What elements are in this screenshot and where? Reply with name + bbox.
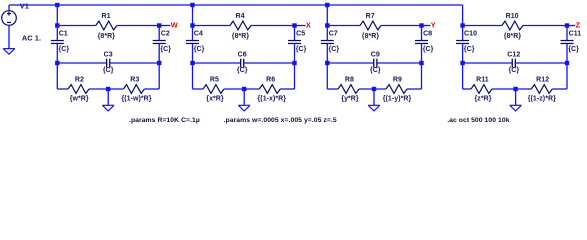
wire bottom middle bbox=[359, 88, 386, 90]
svg-text:{8*R}: {8*R} bbox=[504, 33, 522, 40]
svg-text:{8*R}: {8*R} bbox=[232, 33, 250, 40]
wire left rail down bbox=[462, 44, 464, 89]
svg-text:R4: R4 bbox=[236, 13, 245, 20]
svg-text:{C}: {C} bbox=[296, 46, 307, 53]
resistor R9 bbox=[386, 85, 407, 94]
wire middle rail right bbox=[516, 62, 567, 64]
wire middle rail left bbox=[463, 62, 512, 64]
svg-text:R9: R9 bbox=[393, 77, 402, 84]
wire bottom left bbox=[57, 88, 68, 90]
junction bbox=[292, 23, 296, 27]
svg-text:{y*R}: {y*R} bbox=[341, 96, 359, 103]
svg-text:{x*R}: {x*R} bbox=[206, 96, 224, 103]
svg-text:C11: C11 bbox=[569, 31, 582, 38]
svg-text:R11: R11 bbox=[476, 77, 489, 84]
resistor R5 bbox=[203, 85, 224, 94]
svg-text:{w*R}: {w*R} bbox=[70, 96, 89, 103]
svg-text:{C}: {C} bbox=[194, 46, 205, 53]
svg-text:R6: R6 bbox=[266, 77, 275, 84]
capacitor C1 bbox=[51, 40, 64, 44]
wire bbox=[158, 26, 160, 41]
resistor R8 bbox=[338, 85, 359, 94]
svg-text:{C}: {C} bbox=[329, 46, 340, 53]
capacitor C8 bbox=[415, 40, 428, 44]
wire middle rail right bbox=[110, 62, 159, 64]
svg-text:{(1-y)*R}: {(1-y)*R} bbox=[383, 96, 412, 103]
wire bbox=[421, 26, 423, 41]
wire left rail down bbox=[56, 44, 58, 89]
wire to ground bbox=[243, 89, 245, 105]
wire middle rail right bbox=[244, 62, 294, 64]
wire bottom right bbox=[144, 88, 159, 90]
wire bbox=[57, 25, 96, 27]
junction bbox=[190, 23, 194, 27]
wire middle rail right bbox=[377, 62, 421, 64]
svg-text:.params R=10K C=.1µ: .params R=10K C=.1µ bbox=[129, 117, 200, 124]
svg-text:C6: C6 bbox=[238, 52, 247, 59]
wire bbox=[294, 26, 296, 41]
svg-text:C10: C10 bbox=[464, 31, 477, 38]
svg-text:{C}: {C} bbox=[423, 46, 434, 53]
svg-text:C4: C4 bbox=[194, 31, 203, 38]
resistor R6 bbox=[259, 85, 280, 94]
svg-text:{C}: {C} bbox=[464, 46, 475, 53]
wire top rail drop to section 4 bbox=[462, 5, 464, 26]
wire left rail down bbox=[192, 44, 194, 89]
wire bbox=[117, 25, 159, 27]
svg-text:.params w=.0005 x=.005 y=.05 z: .params w=.0005 x=.005 y=.05 z=.5 bbox=[224, 117, 337, 124]
capacitor C5 bbox=[288, 40, 301, 44]
wire stub to net X bbox=[295, 25, 306, 27]
junction bbox=[157, 23, 161, 27]
svg-text:R1: R1 bbox=[101, 13, 110, 20]
capacitor C12 bbox=[512, 59, 516, 68]
wire top rail bbox=[9, 4, 463, 6]
svg-text:{C}: {C} bbox=[237, 67, 248, 74]
junction bbox=[460, 61, 464, 65]
wire V1 top bbox=[8, 5, 10, 11]
wire bottom left bbox=[327, 88, 338, 90]
capacitor C10 bbox=[456, 40, 469, 44]
junction bbox=[55, 3, 59, 7]
svg-text:{(1-x)*R}: {(1-x)*R} bbox=[258, 96, 287, 103]
wire bottom right bbox=[552, 88, 567, 90]
wire bottom middle bbox=[492, 88, 531, 90]
svg-text:{C}: {C} bbox=[160, 46, 171, 53]
resistor R7 bbox=[360, 21, 381, 30]
svg-text:C8: C8 bbox=[423, 31, 432, 38]
junction bbox=[325, 23, 329, 27]
wire right rail down bbox=[421, 44, 423, 89]
resistor R2 bbox=[68, 85, 89, 94]
wire left rail down bbox=[326, 44, 328, 89]
wire bbox=[566, 26, 568, 41]
junction bbox=[157, 61, 161, 65]
wire bbox=[56, 26, 58, 41]
svg-text:{8*R}: {8*R} bbox=[362, 33, 380, 40]
svg-text:V1: V1 bbox=[20, 2, 29, 11]
wire bbox=[381, 25, 422, 27]
svg-text:{C}: {C} bbox=[508, 67, 519, 74]
svg-text:Z: Z bbox=[576, 21, 581, 30]
junction bbox=[565, 61, 569, 65]
junction bbox=[460, 23, 464, 27]
wire to ground bbox=[107, 89, 109, 105]
svg-text:W: W bbox=[171, 21, 178, 30]
wire bbox=[463, 25, 502, 27]
wire bbox=[327, 25, 360, 27]
svg-text:Y: Y bbox=[431, 21, 436, 30]
resistor R1 bbox=[96, 21, 117, 30]
svg-text:{z*R}: {z*R} bbox=[474, 96, 491, 103]
svg-text:.ac oct 500 100 10k: .ac oct 500 100 10k bbox=[447, 117, 510, 124]
svg-text:AC 1.: AC 1. bbox=[22, 33, 41, 42]
wire right rail down bbox=[158, 44, 160, 89]
junction (ground tap) bbox=[513, 87, 517, 91]
wire middle rail left bbox=[327, 62, 373, 64]
wire bottom left bbox=[193, 88, 204, 90]
svg-text:{C}: {C} bbox=[59, 46, 70, 53]
wire bbox=[326, 26, 328, 41]
svg-text:R12: R12 bbox=[536, 77, 549, 84]
junction (ground tap) bbox=[372, 87, 376, 91]
wire V1 bottom bbox=[8, 25, 10, 48]
wire bbox=[193, 25, 231, 27]
svg-text:R10: R10 bbox=[506, 13, 519, 20]
ground bbox=[368, 105, 380, 111]
svg-text:C12: C12 bbox=[507, 52, 520, 59]
wire to ground bbox=[373, 89, 375, 105]
wire bottom middle bbox=[224, 88, 259, 90]
junction (ground tap) bbox=[242, 87, 246, 91]
wire tap down to section input node bbox=[56, 5, 58, 26]
junction bbox=[565, 23, 569, 27]
svg-text:R7: R7 bbox=[366, 13, 375, 20]
capacitor C9 bbox=[373, 59, 377, 68]
ground bbox=[238, 105, 250, 111]
wire stub to net Z bbox=[567, 25, 575, 27]
capacitor C11 bbox=[561, 40, 574, 44]
wire right rail down bbox=[294, 44, 296, 89]
svg-text:{(1-w)*R}: {(1-w)*R} bbox=[121, 96, 151, 103]
wire bottom right bbox=[280, 88, 294, 90]
wire to ground bbox=[515, 89, 517, 105]
resistor R12 bbox=[531, 85, 552, 94]
svg-text:X: X bbox=[306, 21, 311, 30]
wire bottom right bbox=[407, 88, 422, 90]
wire middle rail left bbox=[57, 62, 106, 64]
svg-text:C1: C1 bbox=[59, 31, 68, 38]
svg-text:C9: C9 bbox=[371, 52, 380, 59]
wire tap down to section input node bbox=[326, 5, 328, 26]
junction bbox=[419, 61, 423, 65]
ground bbox=[510, 105, 522, 111]
svg-text:R2: R2 bbox=[75, 77, 84, 84]
wire middle rail left bbox=[193, 62, 241, 64]
wire bbox=[462, 26, 464, 41]
junction bbox=[419, 23, 423, 27]
svg-text:C7: C7 bbox=[329, 31, 338, 38]
junction bbox=[55, 23, 59, 27]
svg-text:C3: C3 bbox=[104, 52, 113, 59]
wire stub to net W bbox=[159, 25, 170, 27]
junction bbox=[325, 61, 329, 65]
capacitor C4 bbox=[186, 40, 199, 44]
ground bbox=[102, 105, 114, 111]
svg-text:{C}: {C} bbox=[370, 67, 381, 74]
svg-text:R8: R8 bbox=[345, 77, 354, 84]
junction bbox=[325, 3, 329, 7]
wire bbox=[251, 25, 295, 27]
resistor R11 bbox=[471, 85, 492, 94]
wire bottom left bbox=[463, 88, 471, 90]
capacitor C6 bbox=[240, 59, 244, 68]
svg-text:{C}: {C} bbox=[568, 46, 579, 53]
svg-text:{(1-z)*R}: {(1-z)*R} bbox=[528, 96, 556, 103]
resistor R10 bbox=[502, 21, 523, 30]
svg-text:{8*R}: {8*R} bbox=[98, 33, 116, 40]
wire bottom middle bbox=[89, 88, 123, 90]
capacitor C3 bbox=[106, 59, 110, 68]
svg-text:C5: C5 bbox=[296, 31, 305, 38]
ground (V1) bbox=[3, 49, 15, 55]
capacitor C7 bbox=[321, 40, 334, 44]
junction bbox=[55, 61, 59, 65]
junction (ground tap) bbox=[106, 87, 110, 91]
svg-text:R3: R3 bbox=[130, 77, 139, 84]
voltage source V1 bbox=[2, 11, 17, 26]
wire stub to net Y bbox=[422, 25, 431, 27]
wire bbox=[523, 25, 567, 27]
svg-text:C2: C2 bbox=[161, 31, 170, 38]
resistor R4 bbox=[230, 21, 251, 30]
wire tap down to section input node bbox=[192, 5, 194, 26]
junction bbox=[190, 3, 194, 7]
wire bbox=[192, 26, 194, 41]
junction bbox=[190, 61, 194, 65]
wire right rail down bbox=[566, 44, 568, 89]
svg-text:R5: R5 bbox=[210, 77, 219, 84]
resistor R3 bbox=[123, 85, 144, 94]
junction bbox=[292, 61, 296, 65]
svg-text:{C}: {C} bbox=[103, 67, 114, 74]
capacitor C2 bbox=[153, 40, 166, 44]
